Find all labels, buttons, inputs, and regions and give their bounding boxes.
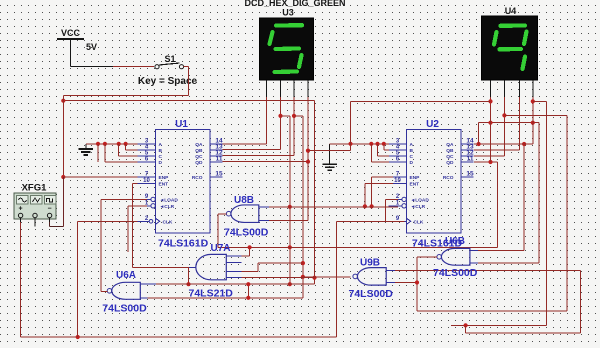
svg-text:C: C xyxy=(410,154,414,160)
svg-text:QD: QD xyxy=(446,160,454,166)
svg-text:U1: U1 xyxy=(175,119,188,130)
svg-text:U7A: U7A xyxy=(210,243,230,254)
svg-text:VCC: VCC xyxy=(61,28,81,38)
svg-text:74LS00D: 74LS00D xyxy=(349,288,394,300)
svg-text:ENP: ENP xyxy=(410,175,421,181)
svg-text:C: C xyxy=(159,154,163,160)
svg-text:◄LOAD: ◄LOAD xyxy=(411,198,430,204)
svg-text:U2: U2 xyxy=(426,119,439,130)
svg-text:U3: U3 xyxy=(282,8,294,18)
svg-text:B: B xyxy=(410,148,414,154)
svg-text:U4: U4 xyxy=(505,6,517,16)
svg-text:◄CLR: ◄CLR xyxy=(411,204,426,210)
svg-text:11: 11 xyxy=(467,156,474,163)
svg-text:RCO: RCO xyxy=(443,175,454,181)
svg-text:10: 10 xyxy=(143,178,150,184)
svg-text:QB: QB xyxy=(446,148,454,154)
svg-text:U6A: U6A xyxy=(116,270,136,281)
svg-text:D: D xyxy=(159,160,163,166)
svg-text:11: 11 xyxy=(216,156,223,163)
svg-text:U6B: U6B xyxy=(445,236,465,247)
svg-text:B: B xyxy=(159,148,163,154)
svg-text:5V: 5V xyxy=(86,42,97,52)
svg-text:U9B: U9B xyxy=(360,258,380,269)
svg-text:15: 15 xyxy=(215,171,223,178)
svg-text:CLK: CLK xyxy=(414,220,424,226)
svg-text:RCO: RCO xyxy=(192,175,203,181)
svg-text:ENT: ENT xyxy=(159,182,169,188)
svg-text:◄LOAD: ◄LOAD xyxy=(160,198,179,204)
svg-text:QA: QA xyxy=(446,142,454,148)
svg-text:QA: QA xyxy=(195,142,203,148)
svg-text:74LS00D: 74LS00D xyxy=(102,303,147,315)
svg-text:QC: QC xyxy=(195,154,203,160)
svg-text:74LS161D: 74LS161D xyxy=(158,238,209,250)
svg-text:◄CLR: ◄CLR xyxy=(160,204,175,210)
svg-text:QD: QD xyxy=(195,160,203,166)
svg-text:A: A xyxy=(159,142,163,148)
svg-text:−: − xyxy=(48,206,52,213)
svg-text:S1: S1 xyxy=(164,54,175,64)
svg-text:+: + xyxy=(19,206,23,213)
svg-text:D: D xyxy=(410,160,414,166)
svg-text:74LS00D: 74LS00D xyxy=(224,226,269,238)
svg-text:15: 15 xyxy=(466,171,474,178)
svg-text:ENT: ENT xyxy=(410,182,420,188)
svg-text:10: 10 xyxy=(394,178,401,184)
svg-text:A: A xyxy=(410,142,414,148)
svg-text:74LS00D: 74LS00D xyxy=(433,267,478,279)
svg-text:QB: QB xyxy=(195,148,203,154)
svg-text:XFG1: XFG1 xyxy=(22,183,48,194)
svg-text:CLK: CLK xyxy=(163,220,173,226)
svg-text:DCD_HEX_DIG_GREEN: DCD_HEX_DIG_GREEN xyxy=(244,0,345,8)
svg-text:U8B: U8B xyxy=(234,195,254,206)
svg-text:QC: QC xyxy=(446,154,454,160)
svg-text:ENP: ENP xyxy=(159,175,170,181)
